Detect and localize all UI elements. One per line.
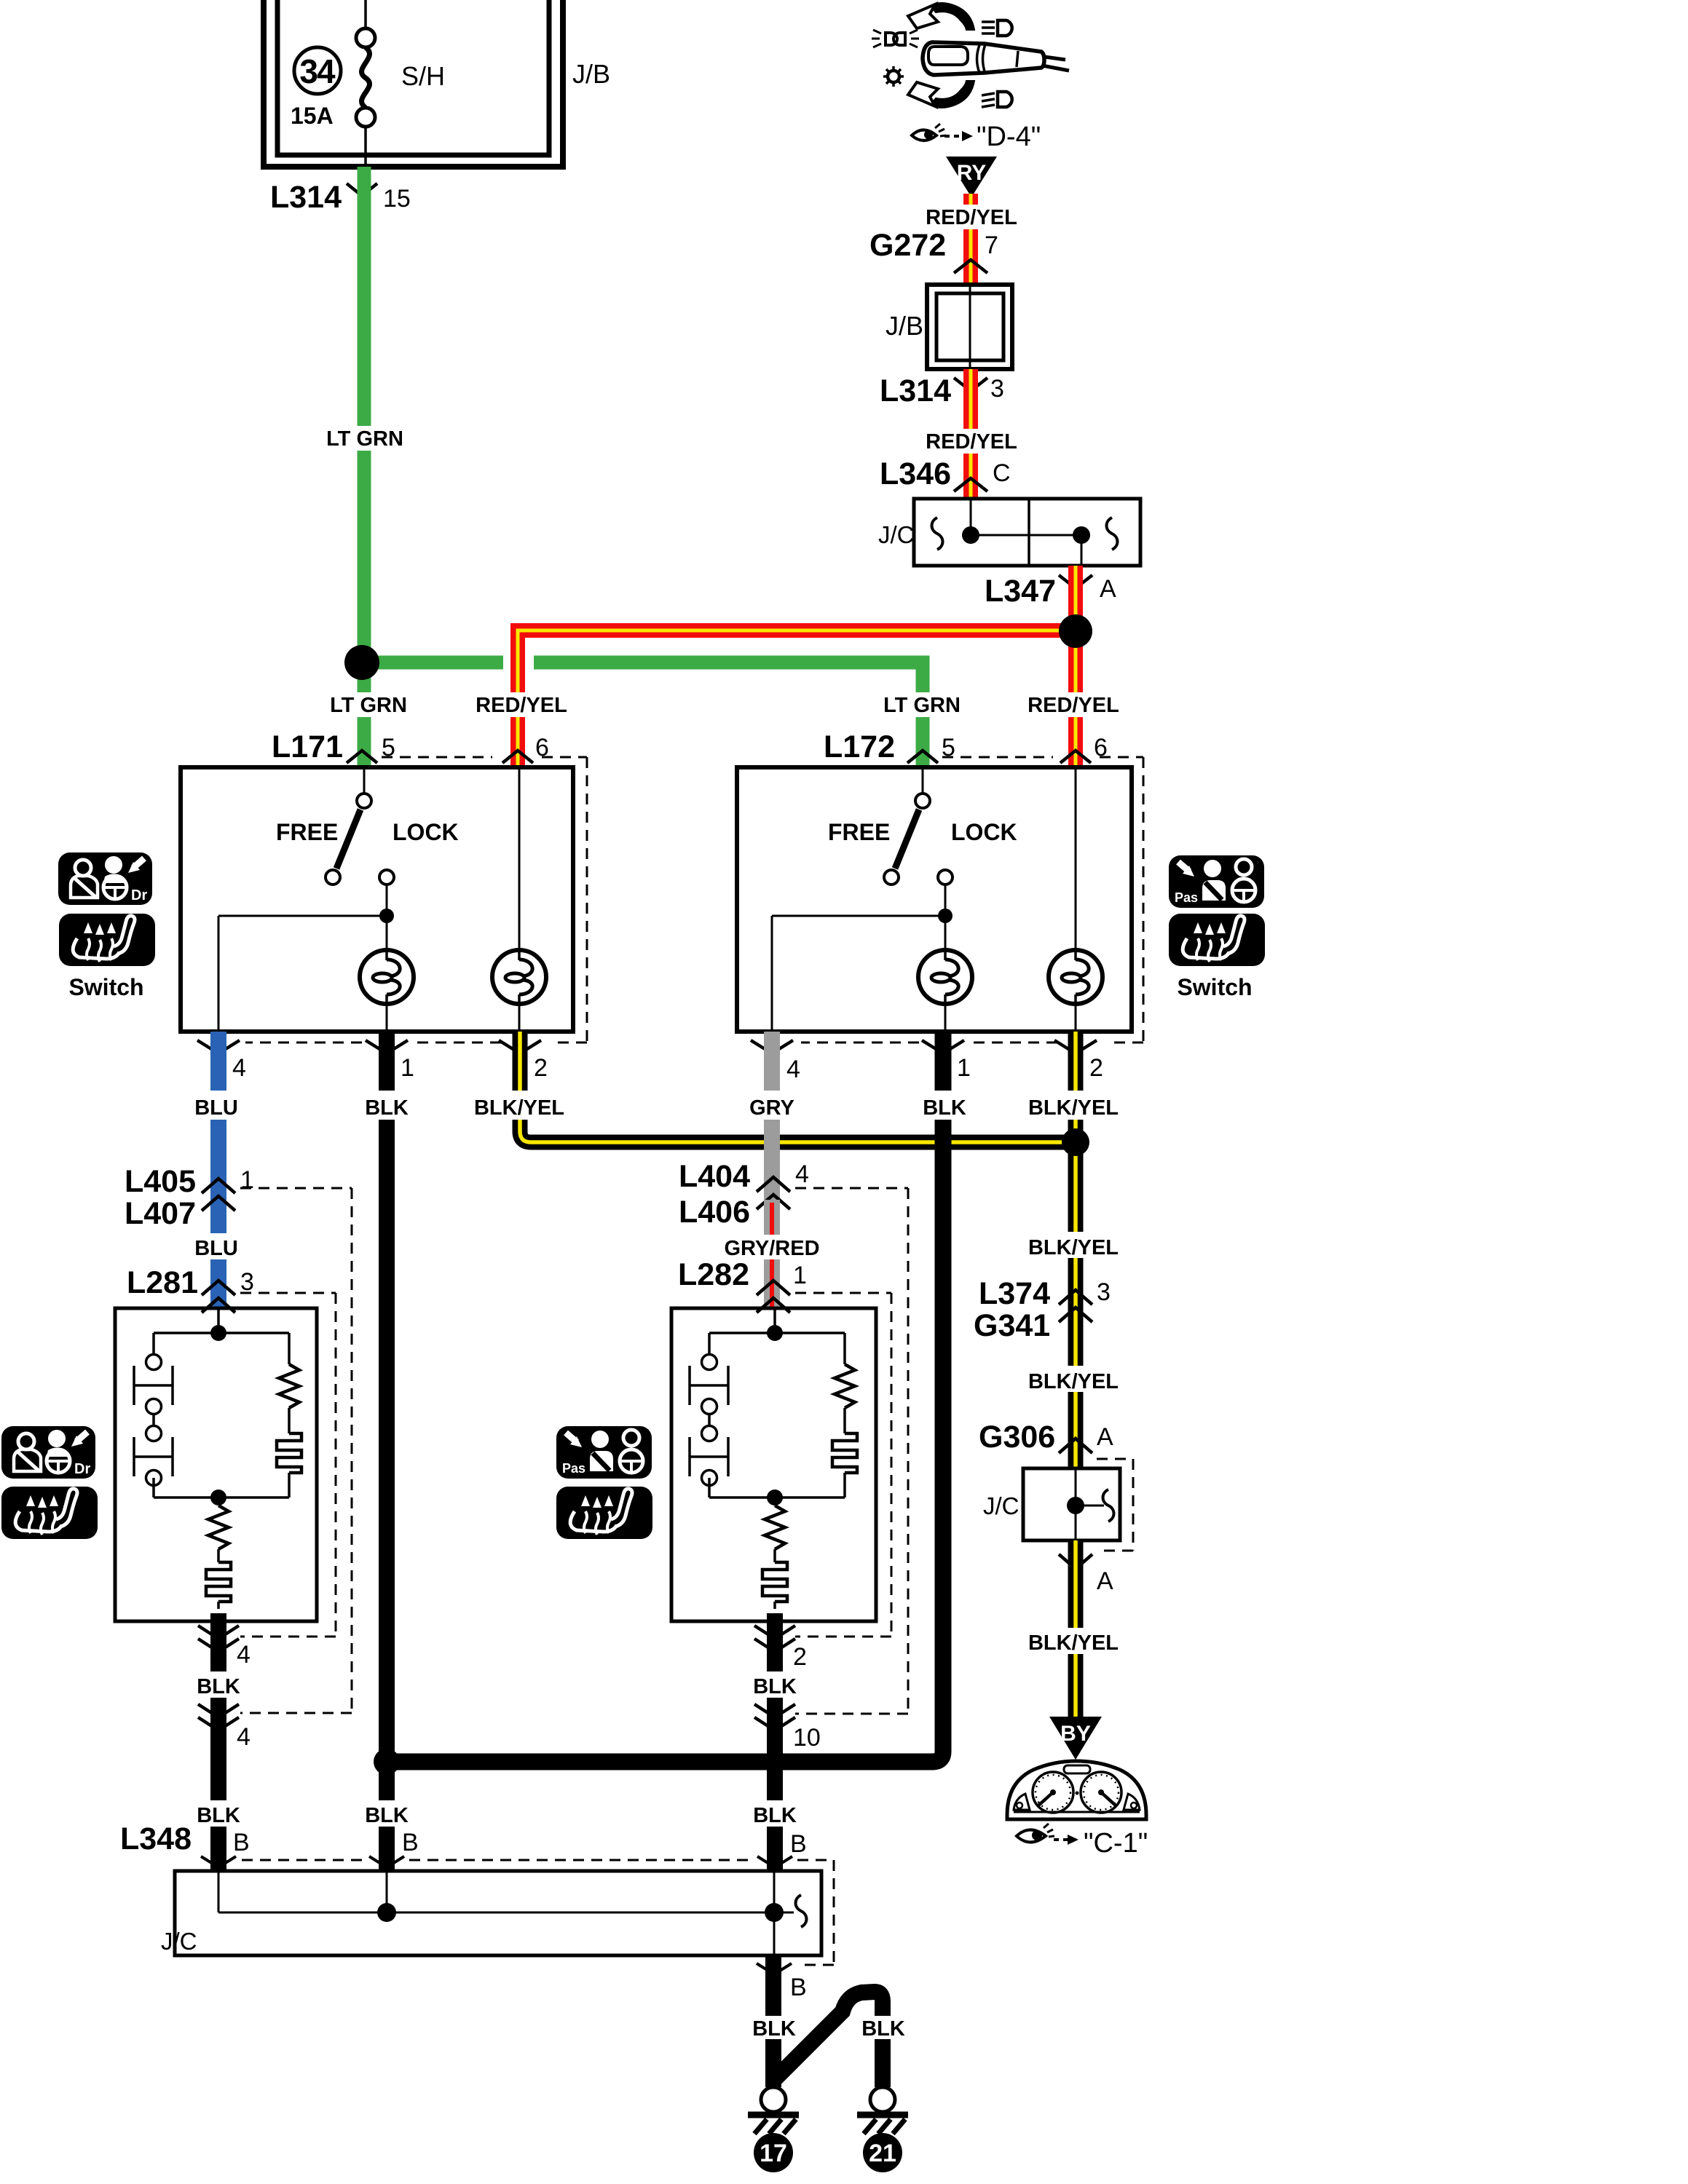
connector L171 bottom pins 4 1 2 bbox=[197, 1040, 548, 1082]
svg-text:B: B bbox=[402, 1829, 419, 1856]
label RED/YEL (top) bbox=[926, 205, 1017, 229]
svg-text:Switch: Switch bbox=[1177, 974, 1252, 1000]
svg-text:L171: L171 bbox=[272, 729, 343, 764]
connector L172 bottom pins 4 1 2 bbox=[751, 1040, 1103, 1083]
connector L404 lower pin 10 bbox=[754, 1704, 821, 1752]
junction dot inside L172 bbox=[938, 909, 953, 923]
ground number 21 bbox=[863, 2133, 902, 2172]
svg-text:4: 4 bbox=[795, 1160, 809, 1188]
svg-text:J/C: J/C bbox=[983, 1492, 1019, 1519]
svg-text:FREE: FREE bbox=[828, 819, 890, 845]
connector L171 pins 5 and 6 bbox=[272, 729, 549, 764]
label J/C (top) bbox=[878, 521, 915, 548]
connector L314 pin 3 bbox=[880, 373, 1004, 408]
svg-text:BLK/YEL: BLK/YEL bbox=[1028, 1631, 1119, 1655]
svg-text:BLK: BLK bbox=[197, 1804, 240, 1827]
svg-text:L314: L314 bbox=[270, 180, 342, 215]
connector L172 pins 5 and 6 bbox=[824, 729, 1108, 764]
svg-text:RY: RY bbox=[957, 161, 987, 185]
wire RED/YEL from J/C down to L172 pin 6 bbox=[1068, 566, 1083, 767]
svg-text:L405: L405 bbox=[125, 1164, 196, 1199]
svg-text:G272: G272 bbox=[869, 228, 946, 263]
connector L346 pin C bbox=[880, 456, 1011, 491]
seat heater element L281 (driver) box bbox=[115, 1308, 317, 1621]
junction dot inside L171 bbox=[379, 909, 394, 923]
label J/C (G306) bbox=[983, 1492, 1019, 1519]
svg-text:L404: L404 bbox=[679, 1159, 750, 1194]
dashed connector outline L282 bbox=[795, 1293, 891, 1637]
wire BLK/YEL from L171 pin 2 to junction bbox=[520, 1032, 1076, 1142]
label RED/YEL (L172 pin 6) bbox=[1028, 692, 1119, 717]
svg-text:BLK: BLK bbox=[861, 2017, 905, 2041]
connector L281 pin 3 bbox=[127, 1265, 254, 1313]
wire LT GRN from fuse to junction and L171 pin 5 bbox=[358, 167, 371, 767]
connector L282 pin 1 bbox=[678, 1257, 807, 1313]
dashed arrow to C-1 bbox=[1054, 1835, 1078, 1845]
main heater element resistor (L281) bbox=[206, 1497, 231, 1621]
svg-text:BLK: BLK bbox=[923, 1096, 966, 1120]
junction connector J/C (top) bbox=[914, 499, 1140, 566]
svg-text:J/B: J/B bbox=[572, 59, 610, 89]
dashed connector outline L281 bbox=[240, 1293, 336, 1637]
svg-text:4: 4 bbox=[786, 1056, 800, 1083]
svg-text:17: 17 bbox=[760, 2140, 787, 2167]
ground number 17 bbox=[754, 2133, 793, 2172]
wire BLU from L171 pin 4 bbox=[210, 1032, 226, 1308]
svg-text:1: 1 bbox=[401, 1054, 414, 1082]
svg-text:4: 4 bbox=[237, 1641, 251, 1669]
label LT GRN (upper) bbox=[326, 426, 404, 451]
heater circuit top node (L282) bbox=[709, 1308, 845, 1364]
wire from LOCK contact to lamp node (L172) bbox=[772, 885, 945, 1032]
wire BLK/YEL from L172 pin 2 down to G306 bbox=[1068, 1032, 1084, 1468]
label "D-4" bbox=[977, 122, 1041, 152]
heated seat switch L171 (driver) box bbox=[181, 767, 573, 1032]
indicator lamp 1 (L172) bbox=[918, 950, 972, 1032]
svg-text:B: B bbox=[790, 1974, 807, 2001]
dashed outline G306 J/C bbox=[1097, 1459, 1133, 1551]
svg-text:4: 4 bbox=[232, 1054, 246, 1082]
svg-text:2: 2 bbox=[793, 1643, 807, 1671]
svg-text:GRY: GRY bbox=[749, 1096, 794, 1120]
label "C-1" bbox=[1084, 1828, 1148, 1859]
label BLK/YEL (junction to L374) bbox=[1028, 1232, 1119, 1259]
svg-text:BLK: BLK bbox=[197, 1675, 240, 1698]
svg-text:L407: L407 bbox=[125, 1196, 196, 1231]
heated seat switch L172 (passenger) box bbox=[737, 767, 1132, 1032]
pilot lamp 2 (L172) bbox=[1049, 767, 1103, 1032]
icon passenger seat belt switch (right of L172) bbox=[1169, 855, 1264, 908]
icon seat heater (left of L281) bbox=[1, 1487, 98, 1539]
svg-text:"D-4": "D-4" bbox=[977, 122, 1041, 152]
pilot lamp 2 (L171) bbox=[492, 767, 546, 1032]
svg-text:J/B: J/B bbox=[886, 311, 923, 341]
svg-text:S/H: S/H bbox=[401, 61, 445, 91]
icon seat heater (right of L172) bbox=[1169, 914, 1265, 966]
heater circuit top node (L281) bbox=[154, 1308, 289, 1364]
junction connector J/C L348 box bbox=[175, 1871, 821, 1955]
svg-text:L172: L172 bbox=[824, 729, 895, 764]
label BLK (ground 17) bbox=[752, 2016, 797, 2041]
label BLK (L281 lower) bbox=[195, 1671, 242, 1698]
connector G306 pin A bbox=[979, 1420, 1113, 1455]
svg-text:2: 2 bbox=[1089, 1054, 1103, 1082]
connector L405/L407 pin 1 bbox=[125, 1164, 254, 1231]
svg-text:L314: L314 bbox=[880, 373, 951, 408]
label S/H bbox=[401, 61, 445, 91]
label BLK (L282 lower) bbox=[752, 1671, 798, 1698]
label LT GRN (L171 pin 5) bbox=[330, 692, 408, 717]
junction block J/B (right) bbox=[927, 285, 1012, 369]
connector L282 pin 2 bbox=[754, 1626, 807, 1671]
connector L374/G341 pin 3 bbox=[974, 1276, 1111, 1343]
relay triangle RY bbox=[946, 157, 997, 197]
svg-text:BLK: BLK bbox=[752, 2017, 796, 2041]
fuse box J/B (top left) bbox=[264, 0, 563, 167]
thermal switch contacts (L281) bbox=[134, 1355, 173, 1486]
seat heater element L282 (passenger) box bbox=[671, 1308, 876, 1621]
wire BLK from L281 pin 4 to L348 bbox=[210, 1621, 226, 1871]
svg-text:Switch: Switch bbox=[68, 974, 143, 1000]
svg-text:10: 10 bbox=[793, 1724, 821, 1752]
svg-text:BLK: BLK bbox=[753, 1675, 797, 1698]
svg-text:34: 34 bbox=[299, 52, 336, 90]
junction connector J/C G306 box bbox=[1023, 1468, 1120, 1540]
svg-text:LT GRN: LT GRN bbox=[326, 427, 403, 451]
svg-text:BLK/YEL: BLK/YEL bbox=[1028, 1096, 1119, 1120]
eye icon to D-4 bbox=[912, 124, 946, 141]
dashed connector outline L404/L406 bbox=[795, 1188, 908, 1714]
label GRY/RED bbox=[724, 1235, 819, 1260]
switch FREE/LOCK (L172) bbox=[828, 767, 1017, 885]
svg-text:7: 7 bbox=[985, 232, 998, 259]
label BLK (L171 pin 1) bbox=[364, 1091, 409, 1120]
wire RED/YEL horizontal branch to L171 pin 6 bbox=[503, 630, 1076, 767]
svg-text:L348: L348 bbox=[120, 1821, 192, 1856]
svg-text:BLU: BLU bbox=[194, 1096, 238, 1120]
label circled 34 bbox=[294, 47, 341, 94]
dashed connector outline L348 bbox=[242, 1860, 834, 1965]
dashed connector outline L405/L407 bbox=[240, 1188, 352, 1713]
connector L405 lower pin 4 bbox=[198, 1704, 251, 1751]
label BLK (left above L348) bbox=[195, 1800, 242, 1827]
wire BLK from L172 pin 1 down and left to junction bbox=[387, 1032, 943, 1762]
heater circuit bottom node (L282) bbox=[709, 1478, 845, 1506]
connector A below G306 bbox=[1059, 1554, 1113, 1595]
label BLK (right above L348) bbox=[752, 1800, 798, 1827]
ground symbol 17 bbox=[748, 2074, 799, 2134]
svg-text:BLK: BLK bbox=[365, 1804, 409, 1827]
svg-text:15: 15 bbox=[383, 185, 411, 213]
thermal switch contacts (L282) bbox=[690, 1355, 728, 1486]
svg-text:G341: G341 bbox=[974, 1308, 1050, 1343]
label J/C (L348) bbox=[161, 1928, 197, 1955]
svg-text:RED/YEL: RED/YEL bbox=[926, 206, 1017, 229]
connector L281 pin 4 bbox=[198, 1626, 251, 1669]
svg-text:RED/YEL: RED/YEL bbox=[1028, 694, 1119, 717]
svg-text:4: 4 bbox=[237, 1723, 251, 1751]
svg-text:RED/YEL: RED/YEL bbox=[476, 694, 567, 717]
svg-text:A: A bbox=[1097, 1423, 1113, 1451]
label BLK/YEL (L172 pin 2) bbox=[1028, 1091, 1119, 1120]
svg-text:L347: L347 bbox=[985, 574, 1056, 609]
svg-text:G306: G306 bbox=[979, 1420, 1055, 1455]
label BLK/YEL (L171 pin 2) bbox=[474, 1091, 564, 1120]
junction dot LT GRN node bbox=[344, 645, 379, 680]
connector L314 pin 15 bbox=[270, 180, 411, 215]
junction dot BLK/YEL node bbox=[1062, 1128, 1089, 1156]
wire RED/YEL J/B to J/C bbox=[963, 369, 978, 499]
svg-text:J/C: J/C bbox=[878, 521, 915, 548]
label BLK (ground 21) bbox=[861, 2016, 906, 2041]
svg-text:21: 21 bbox=[869, 2140, 896, 2167]
wire BLK branch to ground 21 bbox=[773, 1992, 883, 2087]
label BLK/YEL (L374 to G306) bbox=[1028, 1366, 1119, 1393]
svg-text:3: 3 bbox=[990, 375, 1004, 403]
svg-text:B: B bbox=[790, 1830, 807, 1858]
connector L347 pin A bbox=[985, 574, 1116, 609]
label BLU (upper) bbox=[192, 1091, 240, 1120]
svg-text:1: 1 bbox=[240, 1166, 254, 1194]
label Switch (right) bbox=[1177, 974, 1252, 1000]
svg-text:"C-1": "C-1" bbox=[1084, 1828, 1148, 1859]
heater circuit bottom node (L281) bbox=[154, 1478, 289, 1506]
svg-text:15A: 15A bbox=[291, 103, 334, 129]
label 15A bbox=[291, 103, 334, 129]
label BLK (L172 pin 1) bbox=[922, 1091, 966, 1120]
icon seat heater (left of L171) bbox=[59, 914, 155, 966]
label LT GRN (L172 pin 5) bbox=[883, 692, 961, 717]
label RED/YEL (second) bbox=[926, 429, 1017, 454]
svg-text:L374: L374 bbox=[979, 1276, 1050, 1311]
junction dot BLK ground node bbox=[374, 1749, 400, 1775]
relay triangle BY bbox=[1049, 1717, 1102, 1760]
svg-text:A: A bbox=[1100, 575, 1116, 603]
svg-text:2: 2 bbox=[534, 1054, 548, 1082]
dashed arrow to D-4 bbox=[944, 131, 973, 141]
svg-text:C: C bbox=[993, 459, 1011, 487]
svg-text:B: B bbox=[233, 1829, 250, 1856]
label BLK/YEL (above BY) bbox=[1028, 1628, 1119, 1655]
svg-text:LT GRN: LT GRN bbox=[883, 694, 961, 717]
svg-text:3: 3 bbox=[240, 1268, 254, 1296]
connector G272 pin 7 bbox=[869, 228, 998, 273]
label J/B (right) bbox=[886, 311, 923, 341]
wire BLK from L171 pin 1 to L348 bbox=[379, 1032, 395, 1871]
svg-text:A: A bbox=[1097, 1567, 1113, 1595]
connector B below L348 bbox=[757, 1963, 807, 2001]
icon driver seat belt switch (left of L171) bbox=[58, 852, 152, 905]
label BLU (lower) bbox=[192, 1233, 240, 1260]
heater resistor right branch (L281) bbox=[277, 1364, 301, 1497]
svg-text:1: 1 bbox=[957, 1054, 971, 1082]
icon seat heater (left of L282) bbox=[556, 1487, 652, 1539]
connector L404/L406 pin 4 bbox=[679, 1159, 809, 1230]
label J/B (top left box) bbox=[572, 59, 610, 89]
ground symbol 21 bbox=[857, 2074, 908, 2134]
svg-text:3: 3 bbox=[1097, 1278, 1111, 1306]
label GRY (L172 pin 4) bbox=[746, 1091, 798, 1120]
heater resistor right branch (L282) bbox=[832, 1364, 857, 1497]
icon driver seat belt switch (left of L281) bbox=[1, 1426, 95, 1479]
fuse 34 15A bbox=[356, 0, 375, 167]
svg-text:L346: L346 bbox=[880, 456, 951, 491]
svg-text:BLK: BLK bbox=[365, 1096, 409, 1120]
combination switch icon bbox=[872, 3, 1069, 108]
svg-text:L281: L281 bbox=[127, 1265, 198, 1300]
svg-text:L282: L282 bbox=[678, 1257, 749, 1292]
label RED/YEL (L171 pin 6) bbox=[476, 692, 567, 717]
wire BLK from L282 pin 2 to L348 bbox=[767, 1621, 783, 1871]
svg-text:FREE: FREE bbox=[276, 819, 338, 845]
wire GRY from L172 pin 4 bbox=[764, 1032, 780, 1200]
indicator lamp 1 (L171) bbox=[360, 950, 414, 1032]
svg-text:LOCK: LOCK bbox=[393, 819, 459, 845]
wire BLK/YEL from G306 to BY bbox=[1068, 1540, 1084, 1724]
wire LT GRN horizontal branch to L172 pin 5 bbox=[362, 662, 923, 767]
svg-text:BLU: BLU bbox=[194, 1237, 238, 1260]
wire BLK from L348 to ground 17 bbox=[765, 1955, 781, 2087]
eye icon to C-1 bbox=[1017, 1824, 1054, 1843]
svg-text:BLK/YEL: BLK/YEL bbox=[474, 1096, 564, 1120]
icon passenger seat belt switch (left of L282) bbox=[556, 1426, 652, 1479]
wire from LOCK contact to lamp node (L171) bbox=[218, 885, 387, 1032]
svg-text:BLK: BLK bbox=[753, 1804, 797, 1827]
svg-text:LOCK: LOCK bbox=[951, 819, 1017, 845]
label Switch (left) bbox=[68, 974, 143, 1000]
svg-text:BY: BY bbox=[1060, 1722, 1091, 1746]
dashed connector outline L172 bbox=[801, 757, 1143, 1042]
svg-text:BLK/YEL: BLK/YEL bbox=[1028, 1236, 1119, 1259]
wire RED/YEL from RY to J/B bbox=[963, 194, 978, 285]
instrument cluster icon bbox=[1007, 1761, 1146, 1819]
svg-text:BLK/YEL: BLK/YEL bbox=[1028, 1370, 1119, 1393]
wire GRY/RED from L404 to L282 bbox=[764, 1200, 780, 1308]
connector L348 pins B B B bbox=[120, 1821, 807, 1867]
svg-text:J/C: J/C bbox=[161, 1928, 197, 1955]
dashed connector outline L171 bbox=[245, 757, 587, 1042]
junction dot RED/YEL node bbox=[1059, 614, 1092, 648]
switch FREE/LOCK (L171) bbox=[276, 767, 459, 885]
svg-text:RED/YEL: RED/YEL bbox=[926, 430, 1017, 454]
svg-text:LT GRN: LT GRN bbox=[330, 694, 407, 717]
label BLK (middle above L348) bbox=[363, 1800, 410, 1827]
svg-text:L406: L406 bbox=[679, 1195, 750, 1230]
main heater element resistor (L282) bbox=[762, 1497, 787, 1621]
svg-text:1: 1 bbox=[793, 1262, 807, 1289]
